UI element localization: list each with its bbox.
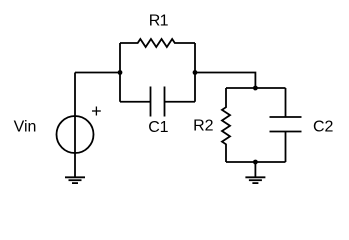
svg-text:C2: C2	[313, 118, 334, 135]
svg-text:1: 1	[160, 13, 169, 30]
svg-text:C: C	[148, 119, 160, 136]
svg-text:1: 1	[160, 119, 169, 136]
svg-text:R2: R2	[193, 118, 214, 135]
svg-text:Vin: Vin	[14, 118, 37, 135]
